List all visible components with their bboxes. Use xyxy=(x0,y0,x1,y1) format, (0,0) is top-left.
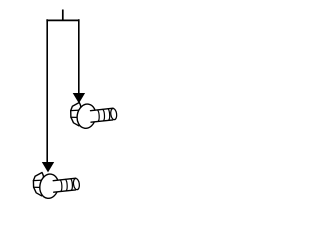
wire: horizontal bar xyxy=(46,19,79,21)
arrowhead to upper bolt xyxy=(73,93,85,103)
flange bolt B2 (lower) xyxy=(33,173,80,200)
flange bolt B1 (upper) xyxy=(71,103,118,130)
bolt B2 shaft bottom edge xyxy=(54,190,76,192)
bolt B1 head facet line lower xyxy=(71,116,80,118)
bolt B1 shaft top edge xyxy=(91,108,114,111)
bolt B1 shaft bottom edge xyxy=(91,120,113,122)
wire: left vertical leader xyxy=(46,19,48,162)
bolt B1 head facet line upper xyxy=(71,109,80,112)
bolt B2 thread arc 1 xyxy=(60,180,62,191)
bolt B2 head facet line upper xyxy=(33,179,42,182)
bolt B2 hex head xyxy=(33,173,44,196)
bolt B1 shaft body xyxy=(91,108,112,122)
bolt B2 thread arc 2 xyxy=(66,179,68,190)
bolt B1 thread arc 1 xyxy=(98,110,100,121)
bolt B2 tip end cap xyxy=(73,178,80,190)
bolt B1 thread arc 3 xyxy=(108,109,110,120)
bolt B2 head facet line lower xyxy=(34,186,43,188)
wire: right vertical leader xyxy=(78,19,80,93)
arrowhead to lower bolt xyxy=(42,162,54,172)
bolt B1 hex head xyxy=(71,103,82,126)
bolt B2 flange washer xyxy=(38,173,61,200)
bolt B1 tip end cap xyxy=(110,108,117,120)
bolt B1 flange washer xyxy=(75,103,98,130)
bolt B1 thread arc 2 xyxy=(103,109,105,120)
bolt B2 thread arc 3 xyxy=(71,179,73,190)
bolt B2 shaft body xyxy=(53,178,74,192)
bolt B2 shaft top edge xyxy=(53,178,76,181)
wire: top stub xyxy=(62,10,64,21)
